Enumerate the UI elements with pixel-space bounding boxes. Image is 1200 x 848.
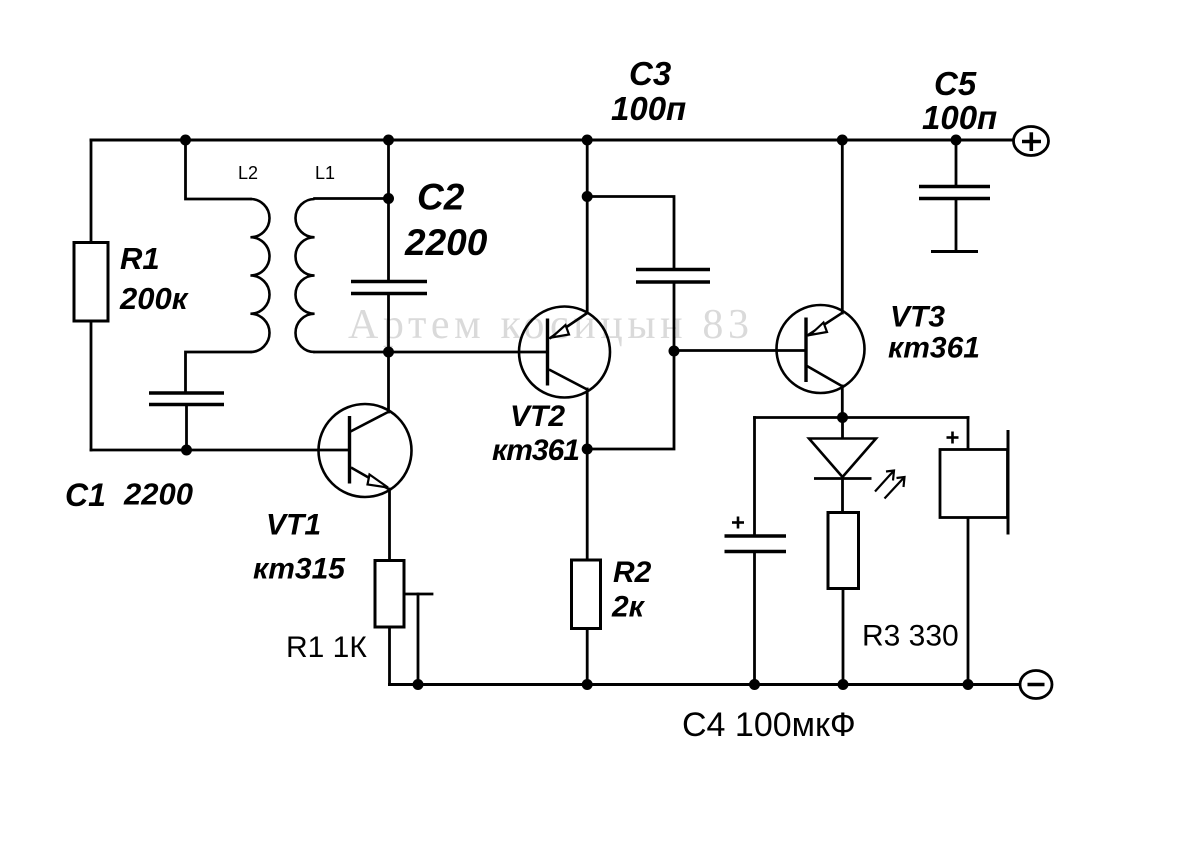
wire VT2 collector <box>586 389 589 449</box>
svg-text:200к: 200к <box>119 281 189 316</box>
LED emission arrow 2 <box>885 477 905 499</box>
wire R2 top <box>586 449 589 560</box>
svg-text:кт315: кт315 <box>253 553 346 586</box>
svg-text:кт361: кт361 <box>888 332 980 365</box>
wire C2 bottom lead <box>387 295 390 352</box>
svg-text:C1: C1 <box>65 477 106 513</box>
inductor L2 <box>250 199 269 352</box>
wire C5 top lead <box>955 140 958 185</box>
terminal plus <box>1014 127 1049 156</box>
wire bottom rail <box>390 683 1021 686</box>
wire L2 bottom <box>186 352 251 392</box>
svg-text:C3: C3 <box>629 55 671 92</box>
capacitor C3 plates <box>636 270 710 283</box>
wire C1 bottom lead <box>185 405 188 450</box>
svg-text:VT2: VT2 <box>510 400 565 433</box>
wire VT3 base <box>674 349 806 352</box>
transistor VT3 collector diagonal <box>807 366 842 386</box>
svg-text:L1: L1 <box>315 163 335 183</box>
speaker polarity plus <box>947 432 959 444</box>
transistor VT2 collector diagonal <box>549 370 587 390</box>
transistor VT2 circle <box>519 307 610 398</box>
wire VT1 emitter <box>388 489 391 561</box>
wire VT3 collector <box>841 386 844 418</box>
wire C4 top lead <box>753 418 756 535</box>
wire L2 top drop <box>186 140 251 199</box>
svg-text:L2: L2 <box>238 163 258 183</box>
LED triangle <box>809 439 876 478</box>
wire R1-1K tap vertical <box>417 594 420 685</box>
LED cathode bar <box>814 477 872 480</box>
wire VT1 base line <box>91 449 350 452</box>
wire VT1 collector <box>387 352 390 412</box>
wire collector-to-base link <box>587 351 674 449</box>
svg-text:С4 100мкФ: С4 100мкФ <box>682 706 856 744</box>
wire left vertical lower <box>90 320 93 450</box>
speaker box <box>940 450 1008 518</box>
resistor R2 body <box>572 560 601 629</box>
resistor R3 body <box>828 513 859 589</box>
transistor VT2 base bar <box>546 319 549 386</box>
wire top rail <box>91 139 1013 142</box>
wire VT2 emitter to rail <box>586 140 589 313</box>
terminal minus <box>1020 671 1052 699</box>
wire R3 bottom <box>842 589 845 685</box>
wire LED cathode to R3 <box>841 479 844 513</box>
svg-text:VT1: VT1 <box>266 509 321 542</box>
wire R1-1K tap <box>404 593 432 596</box>
transistor VT3 emitter arrow <box>810 323 827 336</box>
wire speaker top <box>967 418 970 450</box>
wire output branch <box>755 416 969 419</box>
transistor VT1 circle <box>319 404 412 497</box>
svg-text:2к: 2к <box>611 591 646 624</box>
transistor VT1 base bar <box>348 416 351 484</box>
LED emission arrow 1 <box>875 471 894 492</box>
transistor VT1 emitter arrow <box>368 475 389 488</box>
resistor R1 200k body <box>74 243 108 322</box>
transistor VT1 emitter diagonal <box>351 468 390 490</box>
transistor VT3 circle <box>777 305 865 393</box>
wire VT3 emitter to rail <box>841 140 844 313</box>
svg-text:R1: R1 <box>120 241 160 276</box>
svg-text:R2: R2 <box>613 556 652 589</box>
wire C3 bottom lead <box>673 284 676 352</box>
wire LED anode <box>841 418 844 439</box>
wire L1 top link <box>315 197 389 200</box>
transistor VT2 emitter arrow <box>552 325 570 338</box>
wire C5 bottom lead <box>955 200 958 252</box>
C4 polarity plus <box>732 517 744 529</box>
wire R1-1K bottom lead <box>388 627 391 685</box>
wire left vertical upper <box>90 140 93 243</box>
svg-text:R1 1К: R1 1К <box>286 631 367 664</box>
svg-text:кт361: кт361 <box>492 434 579 467</box>
svg-text:100п: 100п <box>922 99 997 136</box>
wire C3 branch top <box>587 197 674 269</box>
svg-text:2200: 2200 <box>404 222 488 263</box>
transistor VT1 collector diagonal <box>351 412 390 432</box>
svg-text:2200: 2200 <box>123 477 193 512</box>
wire VT2 base <box>389 351 548 354</box>
svg-text:VT3: VT3 <box>890 301 945 334</box>
wire C4 bottom lead <box>753 552 756 685</box>
speaker diaphragm line <box>1007 430 1010 535</box>
inductor L1 <box>296 199 315 352</box>
wire C2 top drop <box>387 140 390 280</box>
wire speaker bottom <box>967 518 970 685</box>
svg-text:100п: 100п <box>611 90 686 127</box>
transistor VT3 base bar <box>804 318 807 383</box>
wire L1 bottom link <box>315 351 389 354</box>
svg-text:R3 330: R3 330 <box>862 620 959 653</box>
transistor VT3 emitter diagonal <box>808 313 843 336</box>
svg-text:C5: C5 <box>934 65 977 102</box>
capacitor C2 plates <box>351 282 427 294</box>
capacitor C1 plates <box>149 393 224 405</box>
capacitor C4 electrolytic plates <box>725 536 787 552</box>
transistor VT2 emitter diagonal <box>550 313 588 339</box>
svg-text:C2: C2 <box>417 177 465 218</box>
resistor R1 1K body <box>375 561 404 628</box>
capacitor C5 plates <box>919 187 990 252</box>
wire R2 bottom <box>586 629 589 685</box>
